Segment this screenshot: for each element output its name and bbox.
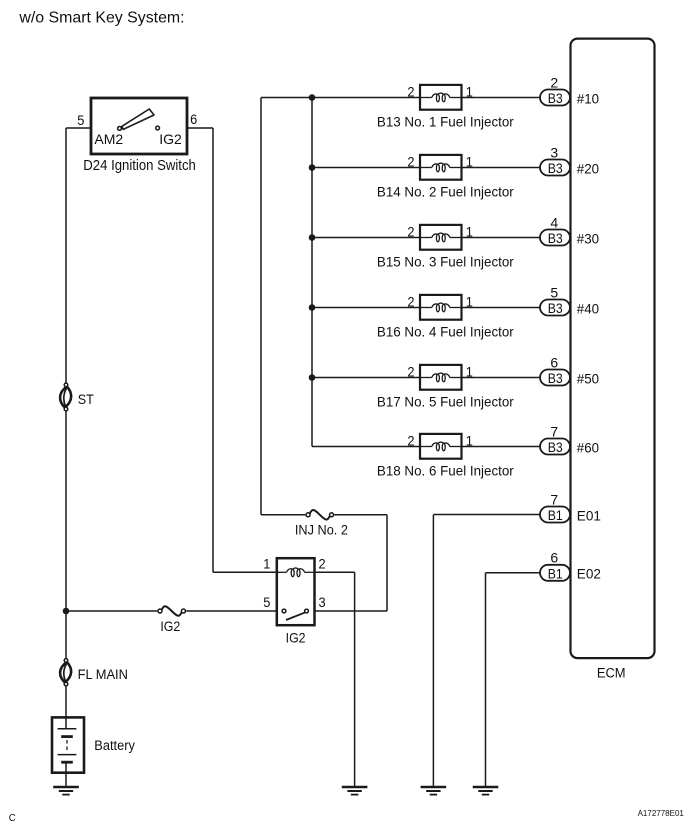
svg-text:#30: #30 — [577, 231, 600, 246]
svg-text:B3: B3 — [548, 231, 563, 247]
svg-text:B3: B3 — [548, 371, 563, 387]
svg-text:5: 5 — [77, 113, 84, 128]
svg-text:Battery: Battery — [94, 738, 135, 754]
svg-text:B1: B1 — [548, 508, 563, 524]
svg-text:6: 6 — [550, 550, 558, 566]
svg-text:4: 4 — [550, 214, 558, 230]
svg-text:2: 2 — [407, 364, 414, 379]
svg-text:IG2: IG2 — [286, 630, 306, 646]
svg-text:A172778E01: A172778E01 — [638, 809, 685, 818]
svg-text:2: 2 — [407, 433, 414, 448]
svg-text:1: 1 — [466, 364, 473, 379]
svg-text:E01: E01 — [577, 508, 601, 523]
svg-text:B17 No. 5 Fuel Injector: B17 No. 5 Fuel Injector — [377, 394, 514, 409]
svg-text:B1: B1 — [548, 566, 563, 582]
svg-text:5: 5 — [550, 284, 558, 300]
svg-text:B13 No. 1 Fuel Injector: B13 No. 1 Fuel Injector — [377, 114, 514, 129]
svg-text:B16 No. 4 Fuel Injector: B16 No. 4 Fuel Injector — [377, 324, 514, 339]
svg-text:IG2: IG2 — [160, 618, 180, 634]
svg-text:B3: B3 — [548, 440, 563, 456]
svg-text:2: 2 — [407, 154, 414, 169]
svg-text:1: 1 — [466, 294, 473, 309]
svg-text:B3: B3 — [548, 91, 563, 107]
svg-text:B18 No. 6 Fuel Injector: B18 No. 6 Fuel Injector — [377, 463, 514, 478]
svg-text:C: C — [9, 813, 16, 824]
svg-text:2: 2 — [407, 84, 414, 99]
svg-text:B14 No. 2 Fuel Injector: B14 No. 2 Fuel Injector — [377, 184, 514, 199]
svg-text:3: 3 — [550, 144, 558, 160]
svg-text:1: 1 — [263, 556, 270, 571]
svg-text:2: 2 — [319, 556, 326, 571]
svg-text:1: 1 — [466, 433, 473, 448]
svg-text:7: 7 — [550, 423, 558, 439]
svg-text:3: 3 — [319, 595, 326, 610]
svg-text:D24 Ignition Switch: D24 Ignition Switch — [83, 156, 196, 173]
svg-text:5: 5 — [263, 595, 270, 610]
svg-text:#50: #50 — [577, 371, 600, 386]
svg-text:ECM: ECM — [597, 665, 626, 681]
svg-text:w/o Smart Key System:: w/o Smart Key System: — [18, 9, 184, 26]
svg-text:FL MAIN: FL MAIN — [78, 667, 128, 683]
svg-text:6: 6 — [550, 354, 558, 370]
svg-text:#40: #40 — [577, 301, 600, 316]
svg-text:IG2: IG2 — [159, 131, 182, 147]
svg-text:B15 No. 3 Fuel Injector: B15 No. 3 Fuel Injector — [377, 254, 514, 269]
svg-text:7: 7 — [550, 491, 558, 507]
svg-text:2: 2 — [407, 224, 414, 239]
svg-text:#10: #10 — [577, 91, 600, 106]
svg-text:#60: #60 — [577, 440, 600, 455]
svg-text:ST: ST — [78, 391, 94, 407]
svg-text:B3: B3 — [548, 161, 563, 177]
svg-text:#20: #20 — [577, 161, 600, 176]
svg-text:INJ No. 2: INJ No. 2 — [295, 522, 348, 537]
svg-text:2: 2 — [407, 294, 414, 309]
svg-text:1: 1 — [466, 84, 473, 99]
svg-text:1: 1 — [466, 154, 473, 169]
svg-text:AM2: AM2 — [94, 131, 123, 147]
svg-text:6: 6 — [190, 112, 197, 127]
svg-text:E02: E02 — [577, 566, 601, 581]
svg-text:2: 2 — [550, 74, 558, 90]
svg-text:1: 1 — [466, 224, 473, 239]
svg-text:B3: B3 — [548, 301, 563, 317]
